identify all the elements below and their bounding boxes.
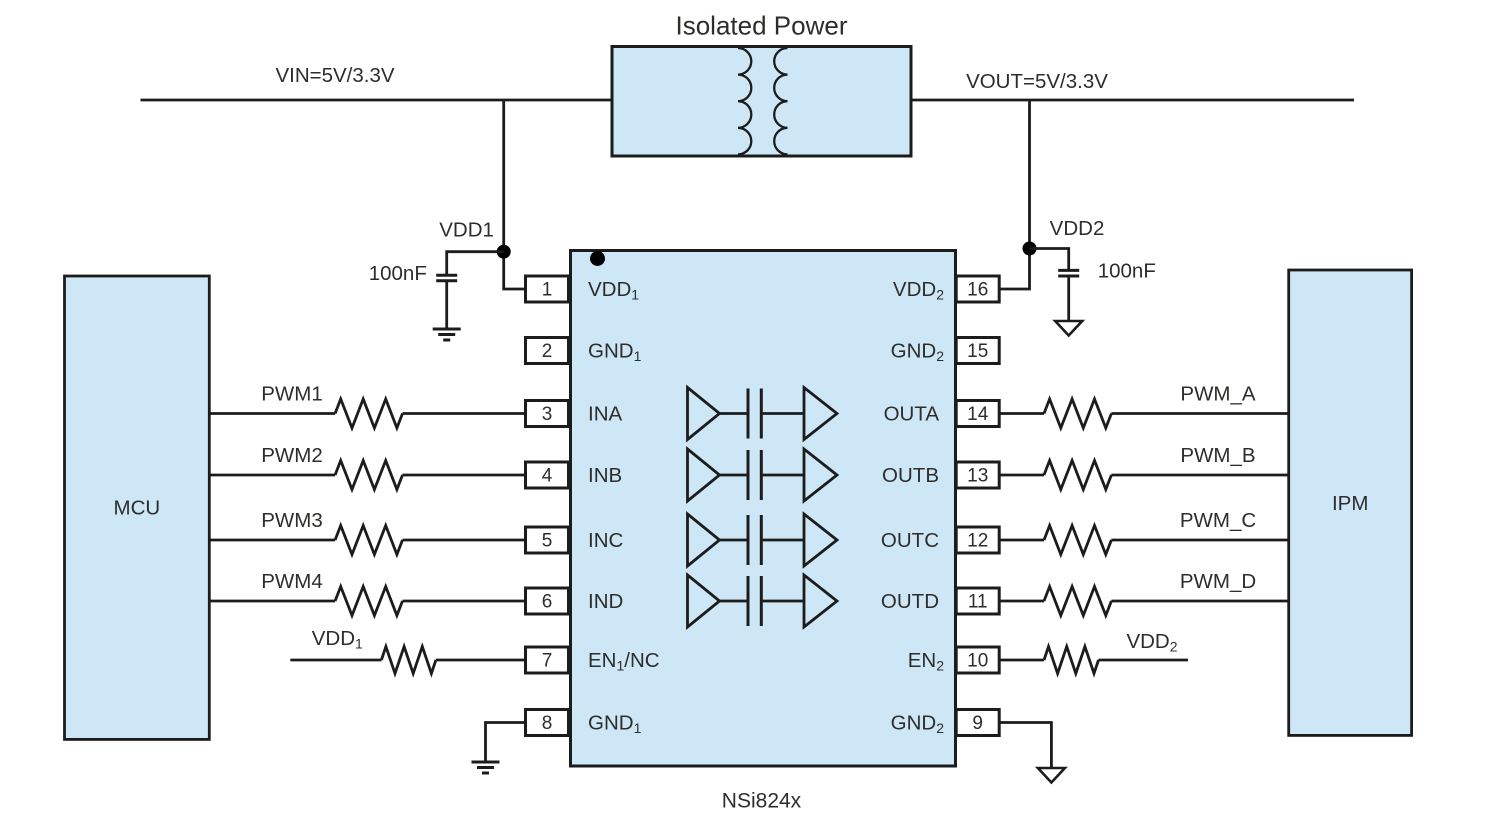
svg-text:EN1/NC: EN1/NC [588, 649, 660, 674]
resistor R4 (PWM4) [335, 587, 402, 616]
wire R10 to VDD2 [1099, 659, 1189, 662]
pin 4 box [526, 462, 569, 488]
wire VDD1 to C1 [447, 252, 504, 276]
transformer T1 Isolated Power box [612, 47, 911, 157]
svg-text:VIN=5V/3.3V: VIN=5V/3.3V [275, 64, 394, 87]
svg-text:PWM_A: PWM_A [1180, 383, 1256, 406]
wire PWM_D to IPM [1111, 600, 1288, 603]
isolation channel C (buffer-cap-buffer) [688, 514, 720, 566]
pin 3 box [526, 401, 569, 427]
wire VDD1 vertical drop [504, 100, 526, 289]
pin 6 box [526, 588, 569, 614]
svg-text:INB: INB [588, 464, 622, 487]
U1 pin-1 indicator dot [590, 251, 605, 266]
svg-text:INC: INC [588, 529, 624, 552]
svg-text:PWM_C: PWM_C [1180, 509, 1257, 532]
svg-text:VDD2: VDD2 [1050, 217, 1105, 240]
svg-text:5: 5 [542, 531, 553, 552]
wire OUTB to resistor [999, 474, 1044, 477]
pin 7 box [526, 647, 569, 673]
pin 13 box [956, 462, 999, 488]
pin 8 box [526, 710, 569, 736]
resistor R9 (EN1 pullup) [381, 647, 436, 674]
wire PWM_B to IPM [1111, 474, 1288, 477]
wire PWM1 from MCU [209, 412, 335, 415]
wire PWM1 to pin 3 [403, 412, 526, 415]
wire PWM3 from MCU [209, 539, 335, 542]
svg-text:3: 3 [542, 404, 553, 425]
MCU block [65, 276, 210, 739]
pin 5 box [526, 527, 569, 553]
svg-text:PWM4: PWM4 [261, 570, 323, 593]
svg-text:100nF: 100nF [369, 262, 427, 285]
transformer T1 secondary winding [774, 48, 787, 154]
svg-text:PWM_D: PWM_D [1180, 570, 1256, 593]
resistor R7 (PWM_C) [1044, 526, 1111, 555]
svg-text:VDD2: VDD2 [1126, 630, 1177, 655]
svg-text:2: 2 [542, 341, 553, 362]
ground GND1 (C1) [433, 328, 461, 331]
svg-text:8: 8 [542, 713, 553, 734]
svg-text:OUTA: OUTA [884, 403, 940, 426]
svg-text:1: 1 [542, 280, 553, 301]
wire VDD2 to C2 [1030, 249, 1069, 271]
wire VIN rail [141, 99, 614, 102]
svg-text:6: 6 [542, 592, 553, 613]
svg-text:GND2: GND2 [891, 712, 945, 737]
isolation channel B (buffer-cap-buffer) [688, 449, 720, 501]
wire PWM2 from MCU [209, 474, 335, 477]
ground GND2 (pin 9) [1038, 768, 1065, 783]
svg-text:13: 13 [967, 466, 988, 487]
wire PWM4 from MCU [209, 600, 335, 603]
svg-text:NSi824x: NSi824x [722, 790, 802, 813]
wire VOUT rail [910, 99, 1354, 102]
pin 12 box [956, 527, 999, 553]
isolation channel A (buffer-cap-buffer) [688, 388, 720, 440]
svg-text:IPM: IPM [1332, 492, 1368, 515]
wire EN2 from pin 10 [999, 659, 1044, 662]
svg-text:16: 16 [967, 280, 988, 301]
ground GND1 (pin 8) [472, 761, 500, 764]
isolator U1 NSi824x body [571, 251, 956, 767]
svg-text:PWM_B: PWM_B [1180, 444, 1255, 467]
wire OUTC to resistor [999, 539, 1044, 542]
pin 1 box [526, 276, 569, 302]
svg-text:PWM1: PWM1 [261, 383, 323, 406]
pin 2 box [526, 338, 569, 364]
svg-text:PWM2: PWM2 [261, 444, 323, 467]
resistor R10 (EN2 pullup) [1044, 647, 1099, 674]
svg-text:Isolated Power: Isolated Power [676, 11, 848, 41]
resistor R1 (PWM1) [335, 399, 402, 428]
node VDD1 junction dot [497, 245, 511, 259]
svg-text:IND: IND [588, 590, 623, 613]
svg-text:10: 10 [967, 651, 988, 672]
wire OUTA to resistor [999, 412, 1044, 415]
svg-text:VOUT=5V/3.3V: VOUT=5V/3.3V [966, 70, 1108, 93]
svg-text:9: 9 [972, 713, 983, 734]
node VDD2 junction dot [1023, 242, 1037, 256]
svg-text:OUTB: OUTB [882, 464, 939, 487]
wire R9 to pin 7 [436, 659, 526, 662]
resistor R3 (PWM3) [335, 526, 402, 555]
svg-text:11: 11 [968, 592, 988, 613]
svg-text:GND2: GND2 [891, 340, 945, 365]
capacitor C1 100nF [436, 274, 457, 277]
transformer T1 primary winding [738, 48, 751, 154]
svg-text:PWM3: PWM3 [261, 509, 323, 532]
wire PWM4 to pin 6 [403, 600, 526, 603]
svg-text:VDD1: VDD1 [439, 218, 494, 241]
pin 10 box [956, 647, 999, 673]
svg-text:OUTD: OUTD [881, 590, 939, 613]
wire OUTD to resistor [999, 600, 1044, 603]
wire EN1 from VDD1 [290, 659, 381, 662]
svg-text:GND1: GND1 [588, 712, 642, 737]
capacitor C2 100nF [1058, 269, 1079, 272]
isolation channel D (buffer-cap-buffer) [688, 575, 720, 627]
svg-text:12: 12 [967, 531, 988, 552]
svg-text:14: 14 [967, 404, 989, 425]
pin 14 box [956, 401, 999, 427]
svg-text:4: 4 [542, 466, 553, 487]
wire pin 9 to ground [999, 723, 1051, 769]
wire VDD2 vertical drop [999, 100, 1029, 289]
svg-text:100nF: 100nF [1098, 260, 1156, 283]
wire PWM_C to IPM [1111, 539, 1288, 542]
ground GND2 (C2) [1055, 321, 1082, 336]
resistor R2 (PWM2) [335, 461, 402, 490]
pin 16 box [956, 276, 999, 302]
svg-text:15: 15 [967, 341, 988, 362]
wire PWM3 to pin 5 [403, 539, 526, 542]
pin 11 box [956, 588, 999, 614]
resistor R5 (PWM_A) [1044, 399, 1111, 428]
wire C2 to ground [1067, 276, 1070, 321]
svg-text:MCU: MCU [114, 497, 161, 520]
svg-text:7: 7 [542, 651, 553, 672]
resistor R8 (PWM_D) [1044, 587, 1111, 616]
wire C1 to ground [445, 281, 448, 329]
svg-text:OUTC: OUTC [881, 529, 939, 552]
IPM block [1289, 270, 1412, 735]
resistor R6 (PWM_B) [1044, 461, 1111, 490]
svg-text:INA: INA [588, 403, 623, 426]
wire PWM2 to pin 4 [403, 474, 526, 477]
wire PWM_A to IPM [1111, 412, 1288, 415]
wire pin 8 to ground [486, 723, 526, 763]
pin 15 box [956, 338, 999, 364]
pin 9 box [956, 710, 999, 736]
svg-text:GND1: GND1 [588, 340, 642, 365]
svg-text:VDD1: VDD1 [312, 627, 363, 652]
